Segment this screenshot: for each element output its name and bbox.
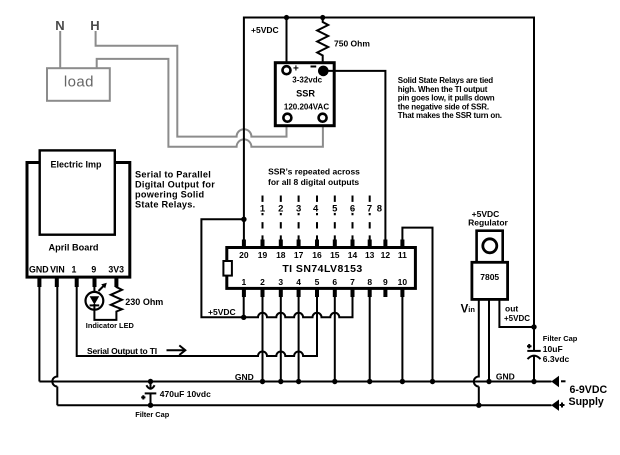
- svg-text:load: load: [64, 73, 94, 90]
- svg-text:10uF: 10uF: [543, 344, 563, 354]
- svg-text:That makes the SSR turn on.: That makes the SSR turn on.: [398, 111, 502, 120]
- svg-text:3-32vdc: 3-32vdc: [292, 76, 322, 85]
- svg-text:6.3vdc: 6.3vdc: [543, 354, 570, 364]
- svg-text:16: 16: [312, 250, 322, 260]
- svg-text:GND: GND: [496, 371, 515, 381]
- svg-text:13: 13: [365, 250, 375, 260]
- junction on +5VDC vertical: [241, 217, 246, 222]
- svg-text:14: 14: [348, 250, 358, 260]
- wire dashed digital output 1: [262, 196, 264, 241]
- wire load to SSR output terminal (hops over +5VDC wire): [97, 59, 323, 147]
- pin VIN stub of April Board: [55, 278, 59, 287]
- svg-text:VIN: VIN: [50, 265, 65, 275]
- resistor R1 750 Ohm: [317, 18, 328, 67]
- svg-text:pin goes low, it pulls down: pin goes low, it pulls down: [398, 94, 495, 103]
- pin 14 stub: [351, 240, 355, 249]
- svg-text:17: 17: [294, 250, 304, 260]
- svg-text:7: 7: [350, 277, 355, 287]
- junction pin 8 / GND rail: [367, 379, 372, 384]
- pin 10 stub: [400, 288, 404, 297]
- wire SSR - terminal to chip pin 12: [323, 71, 385, 241]
- regulator U2 7805 body: [472, 262, 508, 299]
- svg-text:+: +: [293, 64, 299, 75]
- junction pin 3 / GND rail: [278, 379, 283, 384]
- wire +5VDC loop around chip left side to pin 1: [201, 219, 244, 317]
- svg-text:Supply: Supply: [569, 396, 604, 408]
- svg-text:7805: 7805: [480, 272, 499, 282]
- svg-text:+5VDC: +5VDC: [251, 25, 279, 35]
- junction pin 6 / GND rail: [332, 379, 337, 384]
- svg-text:GND: GND: [235, 372, 254, 382]
- junction pin 2 / GND rail: [260, 379, 265, 384]
- svg-text:230 Ohm: 230 Ohm: [125, 297, 163, 307]
- pin GND stub of April Board: [37, 278, 41, 287]
- junction Vin leg / + rail: [476, 403, 481, 408]
- svg-text:Filter Cap: Filter Cap: [543, 334, 578, 343]
- April Board outer box: [27, 163, 130, 278]
- pin 9 stub of April Board: [93, 278, 97, 287]
- svg-text:7: 7: [367, 204, 372, 215]
- pin 11 stub: [400, 240, 404, 249]
- wire chip pin 4 to GND rail: [298, 297, 300, 382]
- junction pin 4 / GND rail: [296, 379, 301, 384]
- LED D1 indicator: [86, 292, 104, 310]
- pin 5 stub: [315, 288, 319, 297]
- svg-text:2: 2: [260, 277, 265, 287]
- polarity + of C2: [527, 344, 532, 348]
- wire chip pin 8 to GND rail: [369, 297, 371, 382]
- pin 15 stub: [333, 240, 337, 249]
- polarity + of C1: [141, 395, 145, 399]
- pin Vin leg of 7805 to + rail (hops over GND rail): [474, 299, 479, 405]
- pin 2 stub: [261, 288, 265, 297]
- pin 1 stub of April Board: [75, 278, 79, 287]
- arrow serial output: [167, 349, 185, 351]
- wire rail to SSR + terminal: [286, 18, 288, 66]
- wire +5VDC left vertical down to chip pin 20: [243, 17, 245, 241]
- pin SSR + input terminal: [283, 66, 291, 74]
- svg-text:TI SN74LV8153: TI SN74LV8153: [282, 263, 362, 275]
- SSR solid state relay body: [275, 63, 334, 126]
- svg-text:N: N: [55, 18, 64, 33]
- wire chip pin 3 to GND rail: [280, 297, 282, 382]
- wire chip pin 11 to GND rail: [402, 228, 432, 382]
- junction pin 10 / GND rail: [400, 379, 405, 384]
- pin 7 stub: [351, 288, 355, 297]
- wire serial data from April pin 1 to chip pin 5 (hops over pins 2-4 wires): [77, 287, 317, 356]
- svg-text:120.204VAC: 120.204VAC: [284, 103, 329, 112]
- svg-text:4: 4: [296, 277, 301, 287]
- svg-text:20: 20: [239, 250, 249, 260]
- wire dashed digital output 5: [334, 196, 336, 241]
- pin SSR - input terminal (filled node): [311, 66, 317, 68]
- wire dashed digital output 4: [316, 196, 318, 241]
- wire April VIN pin to + rail (hops over GND rail): [52, 286, 57, 405]
- svg-text:Solid State Relays are tied: Solid State Relays are tied: [398, 76, 493, 85]
- pin SSR output terminal left: [283, 114, 291, 122]
- wire + supply rail: [57, 404, 551, 406]
- svg-text:3V3: 3V3: [108, 265, 124, 275]
- svg-text:1: 1: [72, 265, 77, 275]
- Electric Imp module box: [40, 150, 115, 234]
- svg-text:Digital Output for: Digital Output for: [135, 180, 215, 190]
- wire dashed digital output 7: [369, 196, 371, 241]
- svg-text:470uF 10vdc: 470uF 10vdc: [160, 389, 211, 399]
- junction below chip pin 1: [241, 315, 246, 320]
- pin 9 stub: [383, 288, 387, 297]
- svg-text:3: 3: [296, 204, 301, 215]
- svg-text:Electric Imp: Electric Imp: [50, 160, 102, 170]
- svg-text:Indicator LED: Indicator LED: [86, 321, 135, 330]
- wire +5VDC branch to chip pin 7 (hops over pins 2-6 wires): [244, 297, 353, 317]
- svg-text:18: 18: [276, 250, 286, 260]
- wire +5VDC top rail: [244, 17, 534, 19]
- pin 13 stub: [368, 240, 372, 249]
- svg-text:Regulator: Regulator: [468, 218, 508, 228]
- svg-text:2: 2: [278, 204, 283, 215]
- resistor R2 230 Ohm: [111, 286, 122, 313]
- pin 1 stub: [242, 288, 246, 297]
- pin 6 stub: [333, 288, 337, 297]
- svg-text:powering Solid: powering Solid: [135, 190, 204, 200]
- pin 3 stub: [279, 288, 283, 297]
- pin 20 stub: [242, 240, 246, 249]
- pin 8 stub: [368, 288, 372, 297]
- wire chip pin 1 to +5VDC junction: [243, 297, 245, 317]
- wire chip pin 10 to GND rail: [401, 297, 403, 382]
- wire April pin 9 to LED anode: [93, 286, 95, 292]
- junction pin 11 wire / GND rail: [430, 379, 435, 384]
- svg-text:Vin: Vin: [461, 304, 476, 316]
- svg-text:6: 6: [350, 204, 355, 215]
- wire LED cathode to resistor R2 bottom: [94, 310, 116, 320]
- svg-text:Filter Cap: Filter Cap: [135, 410, 170, 419]
- svg-text:SSR: SSR: [296, 89, 315, 99]
- wire chip pin 6 to GND rail: [334, 297, 336, 382]
- arrow LED emission: [99, 286, 105, 292]
- svg-text:5: 5: [315, 277, 320, 287]
- svg-text:9: 9: [383, 277, 388, 287]
- svg-text:high. When the TI output: high. When the TI output: [398, 85, 488, 94]
- wire chip pin 2 to GND rail: [262, 297, 264, 382]
- svg-text:8: 8: [367, 277, 372, 287]
- svg-text:8: 8: [377, 204, 382, 215]
- regulator U2 7805 tab: [477, 231, 503, 263]
- svg-text:1: 1: [242, 277, 247, 287]
- pin 17 stub: [297, 240, 301, 249]
- junction GND leg / GND rail: [486, 379, 491, 384]
- svg-text:SSR’s repeated across: SSR’s repeated across: [268, 167, 360, 177]
- svg-text:12: 12: [381, 250, 391, 260]
- svg-text:6: 6: [332, 277, 337, 287]
- pin SSR output terminal right: [319, 114, 327, 122]
- svg-text:H: H: [90, 18, 99, 33]
- capacitor C2 10uF filter cap: [533, 327, 535, 350]
- svg-text:+5VDC: +5VDC: [504, 314, 530, 323]
- pin 16 stub: [315, 240, 319, 249]
- IC U1 orientation notch: [223, 261, 232, 276]
- node supply minus terminal: [551, 376, 559, 387]
- svg-text:9: 9: [91, 265, 96, 275]
- svg-text:the negative side of SSR.: the negative side of SSR.: [398, 102, 489, 111]
- wire April GND pin to GND rail: [38, 286, 40, 382]
- pin out leg of 7805 to +5 node: [499, 299, 534, 327]
- svg-text:Serial to Parallel: Serial to Parallel: [135, 170, 211, 180]
- svg-text:750 Ohm: 750 Ohm: [334, 39, 370, 49]
- svg-text:Serial Output to TI: Serial Output to TI: [87, 346, 157, 356]
- load box: [47, 68, 110, 101]
- junction rail / resistor R1: [320, 15, 325, 20]
- wire dashed digital output 3: [298, 196, 300, 241]
- junction rail / SSR +: [284, 15, 289, 20]
- svg-text:1: 1: [260, 204, 266, 215]
- wire dashed digital output 2: [280, 196, 282, 241]
- svg-text:10: 10: [398, 277, 408, 287]
- wire hot H to SSR output terminal (hops over +5VDC wire): [96, 31, 287, 137]
- node supply plus terminal: [551, 400, 559, 411]
- svg-text:GND: GND: [29, 265, 49, 275]
- IC U1 TI SN74LV8153 body: [227, 248, 416, 289]
- svg-text:+5VDC: +5VDC: [208, 307, 236, 317]
- svg-text:19: 19: [258, 250, 268, 260]
- svg-text:3: 3: [278, 277, 283, 287]
- svg-text:6-9VDC: 6-9VDC: [570, 384, 608, 396]
- pin 12 stub: [383, 240, 387, 249]
- pin 19 stub: [261, 240, 265, 249]
- svg-text:5: 5: [332, 204, 338, 215]
- svg-text:April Board: April Board: [48, 243, 98, 253]
- svg-text:4: 4: [313, 204, 319, 215]
- pin 18 stub: [279, 240, 283, 249]
- wire dashed digital output 6: [352, 196, 354, 241]
- pin 3V3 stub of April Board: [114, 278, 118, 287]
- pin 4 stub: [297, 288, 301, 297]
- svg-text:for all 8 digital outputs: for all 8 digital outputs: [268, 177, 359, 187]
- svg-text:out: out: [505, 304, 518, 314]
- pin GND leg of 7805: [488, 299, 490, 381]
- capacitor C1 470uF filter cap: [148, 379, 153, 384]
- junction regulator out / rail vertical: [531, 324, 536, 329]
- wire GND rail: [39, 381, 551, 383]
- wire neutral N to load: [59, 31, 61, 68]
- svg-text:11: 11: [398, 250, 407, 260]
- svg-text:15: 15: [330, 250, 340, 260]
- wire +5VDC right vertical from rail to regulator output node: [533, 17, 535, 328]
- svg-text:State Relays.: State Relays.: [135, 200, 195, 210]
